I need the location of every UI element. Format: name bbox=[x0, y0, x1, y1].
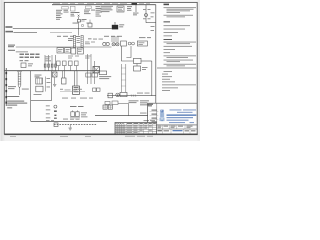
instrument circles P3 P4 bbox=[128, 42, 131, 45]
revision table cell text bbox=[116, 126, 152, 133]
transformer T1 body bbox=[77, 19, 80, 22]
title line 2 (blue) bbox=[167, 117, 194, 118]
notes paragraph 6 bbox=[164, 64, 197, 67]
faint wire W5 bbox=[60, 91, 85, 93]
branch D2 boxes bbox=[86, 73, 91, 77]
notes separator line bbox=[155, 5, 157, 104]
riser fuse boxes bbox=[44, 64, 56, 67]
project title bar (blue) bbox=[167, 114, 197, 116]
bottom-left corner label bbox=[7, 106, 12, 109]
connector box on W6 bbox=[108, 93, 113, 98]
feeder group F2 box bbox=[70, 6, 75, 11]
info row 1 text bbox=[157, 125, 192, 128]
notes paragraph 2 bbox=[164, 15, 194, 17]
wire A3 to V2 bbox=[141, 60, 152, 62]
transformer T1 cross symbol bbox=[78, 15, 80, 17]
bus L1 zone labels bbox=[53, 2, 150, 5]
feeder group F1 label box bbox=[62, 6, 68, 9]
branch D2 risers bbox=[88, 54, 95, 84]
title block hline 3 bbox=[157, 128, 197, 130]
bracket tags bbox=[45, 77, 47, 92]
vertical wire V2 bbox=[151, 61, 153, 96]
control box CB3 bbox=[71, 48, 76, 54]
junction box J1 bbox=[88, 23, 92, 27]
W6 label bbox=[137, 92, 150, 95]
notes subheader bbox=[164, 21, 171, 22]
fuse pair labels bbox=[63, 112, 88, 119]
CAD ref text bbox=[148, 104, 153, 107]
notes items group 2 bbox=[164, 46, 193, 53]
panel label bbox=[70, 106, 84, 107]
company name line 1 (blue) bbox=[170, 109, 197, 110]
terminal box TB0 bbox=[21, 63, 26, 68]
label above TB1 bbox=[68, 38, 92, 41]
wire W4 bbox=[16, 51, 28, 53]
chain line (cable run) bbox=[54, 124, 97, 126]
W7 label bbox=[140, 112, 147, 115]
legend items bbox=[162, 74, 196, 91]
right margin small labels bbox=[151, 12, 155, 31]
notes item small bbox=[164, 70, 173, 73]
wire risers group bbox=[45, 55, 56, 71]
bus L1 top bbox=[52, 4, 156, 6]
terminal row labels bbox=[57, 36, 122, 40]
schedule strip row3 bbox=[20, 60, 29, 61]
label text near B1 bbox=[127, 6, 132, 11]
tick marks on W6 bbox=[131, 94, 136, 96]
title block inner vline bbox=[156, 103, 158, 125]
lamp L1 bbox=[53, 72, 58, 77]
wire W2 bbox=[13, 32, 37, 34]
title block left edge bbox=[147, 103, 149, 122]
ladder mid labels bbox=[77, 38, 80, 43]
control box CB2 bbox=[77, 48, 83, 54]
meter M1 bbox=[145, 14, 148, 17]
title line 4 (blue) bbox=[169, 122, 194, 123]
schedule strip row1 bbox=[20, 54, 40, 55]
bottom info row text bbox=[157, 130, 169, 131]
notes paragraph 1 bbox=[164, 7, 197, 13]
L-connector wire bbox=[126, 46, 131, 58]
breaker label CB1 dark patch bbox=[132, 3, 138, 5]
feeder group F2 text bbox=[71, 12, 76, 16]
lower right text rows bbox=[140, 100, 149, 105]
equipment boundary (left edge) bbox=[30, 71, 32, 122]
revision table header text bbox=[116, 122, 156, 125]
aux box A4 bbox=[134, 66, 141, 71]
crossed lamp on W6 bbox=[116, 93, 120, 97]
title line 3 (blue) bbox=[167, 120, 189, 121]
relay K2 label bbox=[35, 75, 42, 78]
heater ladder R1 bbox=[18, 72, 21, 86]
info row separators bbox=[162, 125, 185, 129]
feeder group F3 box bbox=[85, 6, 91, 9]
transformer T1 side wire bbox=[80, 20, 84, 22]
wire from small circuit bbox=[118, 103, 128, 115]
notes item rows bbox=[164, 25, 191, 36]
relay box A3 bbox=[134, 58, 142, 63]
wire W4 label bbox=[8, 50, 15, 51]
feeder group F1 schedule text bbox=[56, 10, 69, 20]
cable C2 termination bbox=[73, 86, 80, 94]
cable ladder H1 bbox=[73, 36, 75, 48]
feeder group F3 text bbox=[84, 10, 95, 14]
drawing number (blue) bbox=[173, 130, 183, 131]
ground G1 bbox=[53, 77, 56, 87]
mid text rows bbox=[68, 42, 95, 59]
chain end box bbox=[54, 123, 58, 127]
relay box A2 bbox=[137, 41, 147, 46]
notes long rule line bbox=[157, 67, 196, 70]
title block top line bbox=[148, 102, 197, 104]
transformer T1 drop wire bbox=[78, 22, 80, 36]
terminal block TB1 bbox=[57, 48, 64, 53]
company emblem (blue crest) bbox=[160, 110, 165, 121]
meter branch lead bbox=[145, 5, 147, 23]
ground G2 bbox=[68, 125, 72, 130]
label near small circuit bbox=[129, 100, 139, 103]
notes paragraph 3 bbox=[164, 42, 197, 45]
bus L2 bbox=[5, 70, 100, 72]
wire W3 bbox=[16, 46, 112, 48]
aux box A1 bbox=[121, 41, 127, 46]
contact bank on bus bbox=[57, 61, 79, 66]
TP marks bbox=[46, 119, 54, 122]
label above A2 bbox=[139, 36, 151, 39]
lower bus W7 bbox=[95, 115, 148, 117]
relay K2 aux box bbox=[36, 86, 43, 92]
crossed lamps X1 X2 bbox=[112, 43, 115, 46]
footer text below border bbox=[10, 136, 153, 137]
zone letters on left border bbox=[5, 68, 8, 106]
relay K3 box bbox=[99, 71, 106, 75]
load list text block bbox=[101, 6, 114, 12]
panel box B1 bbox=[117, 6, 124, 12]
notes header bbox=[164, 4, 170, 6]
lower text rows bbox=[62, 97, 93, 100]
bottom small box pair with cross bbox=[103, 105, 107, 109]
instrument circles P1 P2 bbox=[103, 42, 106, 45]
branch D1 bbox=[63, 71, 65, 78]
notes paragraph 4 bbox=[164, 55, 197, 58]
motor starter box with X bbox=[93, 66, 99, 72]
power supply PS1 (dark box) bbox=[112, 25, 118, 30]
equipment boundary bottom bbox=[31, 100, 52, 102]
signature row labels bbox=[152, 110, 158, 123]
wire labels row bbox=[60, 89, 82, 90]
R1 labels bbox=[8, 86, 29, 89]
equipment boundary (right edge) bbox=[51, 71, 53, 101]
wire riser V1 bbox=[122, 46, 134, 61]
transformer T1 label bbox=[75, 12, 80, 13]
cable C3 (tall pair) bbox=[121, 64, 126, 92]
relay K2 box bbox=[36, 78, 43, 84]
symbol column labels bbox=[46, 105, 51, 118]
signature row lines bbox=[150, 112, 159, 124]
approved text above table bbox=[144, 119, 156, 122]
contactor drop K0 bbox=[112, 36, 118, 42]
boundary lower wire W8 bbox=[31, 120, 107, 122]
wire W3 label bbox=[8, 45, 15, 48]
revision table row lines bbox=[115, 125, 157, 131]
feeder group F4 text bbox=[96, 6, 103, 16]
schedule strip row2 bbox=[20, 57, 40, 58]
lower wire W6 bbox=[107, 95, 156, 97]
wire W1 label bbox=[5, 26, 12, 28]
terminal block TB2 bbox=[65, 48, 71, 53]
lower-left text block bbox=[7, 96, 27, 106]
revision table column lines bbox=[117, 123, 152, 134]
revision table frame bbox=[115, 123, 157, 134]
title block hline 2 bbox=[157, 124, 197, 126]
cable C3 termination box bbox=[120, 92, 127, 96]
wire W2 label bbox=[5, 31, 13, 33]
notes item header bbox=[164, 39, 173, 40]
cable C2 bbox=[75, 71, 78, 86]
cable ladder H2 bbox=[81, 36, 83, 48]
small circuit boxes bbox=[105, 101, 110, 104]
wire meter to notes edge bbox=[146, 22, 156, 24]
company name line 2 (blue) bbox=[177, 112, 193, 113]
symbol column bbox=[54, 105, 57, 108]
wire W2a segment bbox=[50, 32, 72, 34]
branch drop B2 bbox=[135, 5, 137, 12]
small terminal boxes bbox=[93, 88, 96, 91]
pilot circle bbox=[81, 24, 83, 26]
fuse box pair bbox=[71, 112, 75, 117]
notes paragraph 5 bbox=[164, 60, 194, 63]
relay K3 text bbox=[99, 76, 111, 79]
wire W1 bbox=[13, 28, 112, 30]
